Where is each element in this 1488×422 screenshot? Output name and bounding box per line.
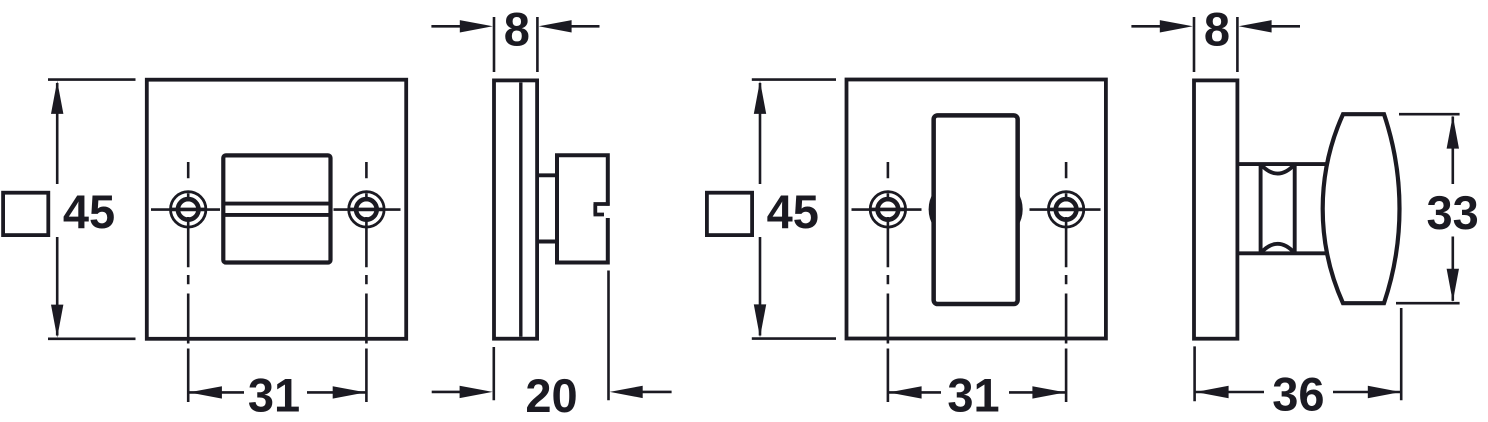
hub bump right view 3 <box>1018 192 1023 227</box>
dimension 8 view 2 : extension lines <box>494 17 537 72</box>
spindle stem lines view 2 <box>537 175 556 241</box>
dimension 31 view 3 : extension lines <box>888 349 1066 403</box>
spool flange right view 4 <box>1293 165 1297 253</box>
vertical centre line left screw view 1 <box>187 162 190 344</box>
screw left view 3 <box>870 192 905 227</box>
horizontal centre line view 1 <box>151 208 401 211</box>
dimension 45 view 1 : extension lines <box>48 80 136 339</box>
waist arc bottom view 4 <box>1261 244 1295 253</box>
knob slot view 2 <box>594 204 610 215</box>
dimension 31 view 1 : dimension line <box>189 391 366 394</box>
dimension 45 view 1 : arrowheads <box>51 81 63 114</box>
dimension 31 view 1 : extension lines <box>188 349 366 403</box>
dimension 8 view 4 : arrowheads <box>1160 20 1193 32</box>
plate outline view 1 <box>147 80 406 339</box>
dimension 36 view 4 : arrowheads <box>1196 386 1229 398</box>
square symbol view 1 <box>3 193 48 235</box>
dimension 8 view 4 : dimension line <box>1131 25 1300 28</box>
svg-text:45: 45 <box>63 185 115 238</box>
central opening view 3 <box>934 115 1018 304</box>
dimension 33 view 4 : extension lines <box>1396 114 1460 303</box>
svg-text:36: 36 <box>1272 368 1324 421</box>
dimension 8 view 2 : dimension line <box>431 25 599 28</box>
svg-text:8: 8 <box>1204 3 1230 56</box>
svg-text:31: 31 <box>248 369 300 422</box>
dimension 8 view 2 : arrowheads <box>460 20 493 32</box>
vertical centre line right screw view 1 <box>365 162 368 344</box>
screw right view 3 <box>1048 192 1083 227</box>
dimension 8 view 4 : extension lines <box>1194 17 1237 72</box>
svg-text:20: 20 <box>525 369 577 422</box>
knob body view 2 <box>557 155 608 262</box>
central turn square view 1 <box>223 155 330 262</box>
slot lines in turn square <box>222 204 333 215</box>
dimension 31 view 3 : arrowheads <box>889 386 922 398</box>
horizontal centre line view 3 <box>852 208 1101 211</box>
plate outline view 3 <box>847 80 1106 339</box>
spool flange left view 4 <box>1259 165 1263 253</box>
dimension 45 view 3 : arrowheads <box>754 81 766 114</box>
waist arc top view 4 <box>1261 164 1295 173</box>
dimension 31 view 1 : arrowheads <box>189 386 222 398</box>
neck bottom line view 4 <box>1237 251 1329 255</box>
plate face line view 2 <box>519 83 522 337</box>
svg-text:45: 45 <box>767 185 819 238</box>
neck top line view 4 <box>1237 162 1329 166</box>
dimension 33 view 4 : dimension line <box>1452 117 1455 301</box>
screw left view 1 <box>171 192 206 227</box>
dimension 36 view 4 : dimension line <box>1196 391 1401 394</box>
dimension 33 view 4 : arrowheads <box>1447 116 1459 149</box>
knob lens view 4 <box>1323 114 1400 303</box>
dimension 31 view 3 : dimension line <box>889 391 1066 394</box>
dimension 20 view 2 : dimension line <box>432 391 672 394</box>
svg-text:33: 33 <box>1427 186 1479 239</box>
svg-text:31: 31 <box>947 369 999 422</box>
dimension 36 view 4 : extension lines <box>1195 308 1402 401</box>
dimension 20 view 2 : arrowheads <box>460 386 493 398</box>
plate side view 4 <box>1194 80 1237 338</box>
dimension 20 view 2 : extension lines <box>494 271 609 401</box>
vertical centre line left screw view 3 <box>887 162 890 344</box>
vertical centre line right screw view 3 <box>1065 162 1068 344</box>
plate side view 2 <box>494 80 537 338</box>
square symbol view 3 <box>707 193 752 235</box>
dimension 45 view 3 : extension lines <box>752 80 836 339</box>
svg-text:8: 8 <box>504 3 530 56</box>
screw right view 1 <box>349 192 384 227</box>
dimension 45 view 3 : dimension line <box>759 83 762 336</box>
hub bump left view 3 <box>929 192 934 227</box>
dimension 45 view 1 : dimension line <box>56 83 59 336</box>
